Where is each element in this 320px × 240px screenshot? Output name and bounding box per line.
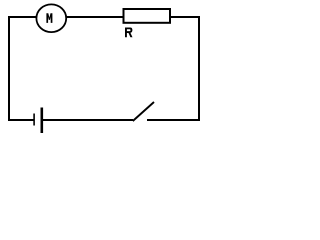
wire left vertical <box>8 16 10 121</box>
motor label M <box>46 13 52 23</box>
motor M1 (circle with M) <box>36 4 66 32</box>
battery long plate <box>40 108 43 134</box>
resistor R <box>124 9 171 23</box>
battery short plate <box>33 114 35 126</box>
wire motor to resistor <box>66 16 124 18</box>
wire right vertical <box>198 16 200 121</box>
wire switch to bottom-right corner <box>147 119 200 121</box>
resistor label R <box>125 28 133 38</box>
wire battery to switch <box>43 119 133 121</box>
wire resistor to top-right corner <box>170 16 200 18</box>
wire bottom-left to battery <box>8 119 34 121</box>
wire top-left horizontal <box>8 16 37 18</box>
switch blade <box>133 102 154 121</box>
